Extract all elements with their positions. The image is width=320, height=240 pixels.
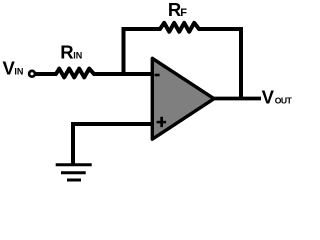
node: feedback junction, vertical branch up — [122, 27, 126, 74]
ground — [56, 165, 92, 180]
input terminal node — [29, 71, 35, 77]
wire: non-inverting input to ground corner — [73, 124, 152, 164]
svg-text:V: V — [262, 86, 275, 107]
label VIN — [3, 57, 24, 78]
wire: terminal to RIN — [36, 72, 57, 76]
label RIN — [60, 41, 82, 62]
wire: op-amp output — [213, 97, 261, 101]
op-amp non-inverting pin plus sign — [157, 117, 167, 127]
wire: RIN to op-amp inverting input — [94, 72, 152, 76]
op-amp inverting pin minus sign — [155, 74, 160, 77]
resistor RIN — [56, 69, 94, 78]
wire: RF to right corner — [199, 27, 243, 31]
svg-text:IN: IN — [73, 50, 82, 60]
svg-text:IN: IN — [14, 66, 23, 76]
label RF — [168, 0, 187, 20]
op-amp U1 — [152, 58, 214, 139]
wire: feedback right vertical down to output — [239, 27, 243, 99]
svg-text:OUT: OUT — [275, 95, 293, 105]
svg-text:R: R — [60, 41, 73, 62]
svg-text:R: R — [168, 0, 181, 20]
svg-text:F: F — [180, 7, 187, 19]
label VOUT — [262, 86, 293, 107]
wire: top left segment to RF — [122, 27, 161, 31]
resistor RF — [160, 23, 199, 32]
